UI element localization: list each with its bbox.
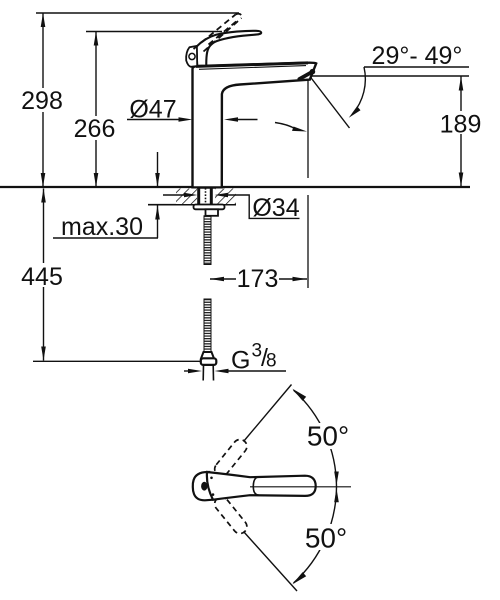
label 50 deg upper — [305, 421, 351, 452]
mounting nut — [206, 209, 219, 216]
svg-text:445: 445 — [21, 263, 63, 291]
wire: extension line top (298 level) — [36, 12, 239, 14]
svg-text:173: 173 — [237, 265, 279, 293]
counter bottom line — [148, 204, 236, 206]
bottom view: upper 50 deg arc — [292, 389, 339, 487]
svg-text:Ø34: Ø34 — [252, 194, 299, 222]
bottom view: lever solid — [207, 472, 316, 500]
threaded rod lower segment — [204, 299, 211, 352]
bottom view: upper 50 deg radial line — [244, 385, 292, 442]
swivel arc arrow — [275, 123, 307, 132]
svg-text:50°: 50° — [307, 421, 349, 452]
bottom view: dashed handle rotated up — [212, 437, 250, 479]
bottom view: lower 50 deg radial line — [244, 532, 298, 592]
threaded rod upper segment — [204, 216, 211, 265]
svg-text:29°- 49°: 29°- 49° — [372, 42, 463, 70]
wire: 445 bottom extension line — [33, 360, 201, 362]
hose tube end — [203, 365, 213, 381]
dimension max.30 — [53, 152, 160, 241]
faucet body and spout — [193, 63, 317, 188]
svg-text:Ø47: Ø47 — [129, 96, 176, 124]
dimension 266 — [72, 32, 117, 188]
hose connector nut G3/8 — [201, 358, 217, 365]
bottom view centerline — [250, 486, 351, 488]
wire: spout tip extension line upper — [307, 80, 309, 178]
svg-text:298: 298 — [21, 87, 63, 115]
angle diagonal line — [310, 77, 350, 129]
mounting hatch left — [176, 189, 197, 205]
aerator at spout tip — [299, 69, 315, 79]
label 50 deg lower — [303, 523, 349, 554]
dimension 173 — [210, 265, 307, 293]
handle base knuckle — [186, 46, 197, 67]
svg-text:G: G — [231, 347, 250, 375]
wire: spout tip extension line lower — [307, 195, 309, 288]
mounting washer — [194, 205, 225, 210]
counter top line — [0, 186, 470, 188]
shank tube — [199, 188, 212, 205]
bottom view: handle head — [193, 472, 213, 500]
svg-text:50°: 50° — [305, 523, 347, 554]
dimension G 3/8 — [184, 341, 286, 375]
dimension 189 — [440, 77, 482, 187]
bottom view: dashed handle rotated down — [212, 494, 250, 536]
hose crimp collar — [201, 352, 214, 359]
dimension 298 — [20, 13, 65, 187]
svg-text:189: 189 — [440, 110, 482, 138]
dimension diameter 47 — [127, 96, 258, 124]
bottom view: lower 50 deg arc — [292, 487, 339, 585]
svg-text:266: 266 — [74, 115, 116, 143]
bottom view: head screw dots — [210, 477, 213, 480]
wire: extension line (266 level) — [86, 31, 222, 33]
mounting hatch right — [215, 189, 236, 205]
dimension diameter 34 — [163, 193, 300, 222]
svg-text:8: 8 — [266, 351, 277, 372]
bottom view: head slot — [201, 482, 207, 491]
handle lever (solid) — [196, 31, 261, 66]
wire: 189 top extension line — [311, 75, 469, 77]
angle arc 29-49 — [349, 67, 366, 118]
handle raised (dashed) — [194, 14, 242, 52]
svg-text:max.30: max.30 — [61, 213, 143, 241]
dimension 445 — [20, 189, 65, 361]
label 29-49 degrees — [364, 42, 469, 70]
